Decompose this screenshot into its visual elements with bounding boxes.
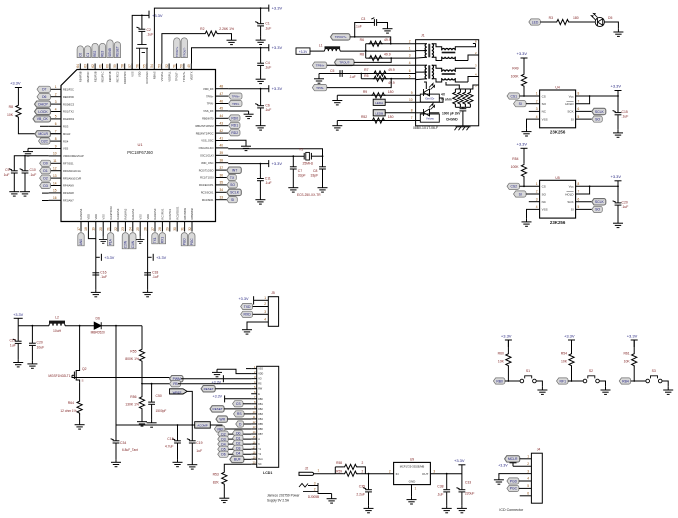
wire pin7 HOLD jog (576, 96, 590, 104)
svg-text:TX1: TX1 (153, 237, 157, 243)
node D3 tag pin14 (40, 182, 51, 188)
svg-text:L2: L2 (55, 316, 59, 320)
svg-text:NC: NC (258, 463, 262, 466)
resistor R2 2.26K 1% (204, 31, 218, 36)
svg-text:7: 7 (578, 99, 580, 103)
node TPIN- tag (312, 84, 327, 90)
power +3.3V right bar (268, 85, 270, 92)
node D4 tag (233, 450, 244, 456)
wire pin4 VSS (527, 209, 540, 218)
ground (173, 459, 183, 467)
svg-text:S2: S2 (589, 369, 593, 373)
wire LCD1 pin 10 (251, 413, 257, 415)
svg-text:SO: SO (230, 183, 235, 187)
ground (256, 76, 266, 84)
svg-text:OSC1/CLKI: OSC1/CLKI (200, 154, 214, 158)
node C2 vtag (92, 43, 98, 57)
svg-text:+3.3V: +3.3V (272, 161, 283, 166)
node D2 tag (218, 431, 229, 437)
power +3.3V side tap (96, 256, 100, 258)
wire (416, 94, 421, 96)
ground ICD pin3 (499, 474, 532, 477)
svg-text:VSS: VSS (130, 71, 134, 76)
svg-text:2.2uF: 2.2uF (356, 492, 365, 496)
node D0 tag pin11 (40, 160, 51, 166)
capacitor C35 2.2uF (368, 474, 370, 490)
svg-text:RA5/AN4: RA5/AN4 (79, 208, 83, 219)
svg-text:.1uF: .1uF (265, 181, 272, 185)
svg-text:C33: C33 (465, 481, 471, 485)
jack switch contacts (299, 483, 332, 494)
node SCLK tag pin34 (227, 189, 242, 195)
resistor R49 100K (521, 73, 526, 87)
wire (327, 79, 391, 88)
svg-text:C11: C11 (265, 177, 271, 181)
svg-text:C10: C10 (30, 168, 36, 172)
svg-text:.1uF: .1uF (30, 173, 37, 177)
svg-text:FB: FB (173, 382, 178, 386)
wire cap branch (617, 186, 619, 202)
svg-text:1uF: 1uF (10, 344, 16, 348)
wire gate row to PWM tag (72, 375, 85, 377)
wire LCD1 pin 3 (251, 378, 257, 380)
wire (314, 473, 335, 475)
svg-text:10K: 10K (7, 113, 14, 117)
node INT tag pin37 (227, 167, 242, 173)
U1 left pins 1-16 (49, 88, 61, 90)
svg-text:16: 16 (53, 196, 57, 200)
svg-text:6: 6 (55, 122, 57, 126)
wire (432, 44, 442, 51)
svg-text:2: 2 (536, 190, 538, 194)
svg-text:RE1/P2C: RE1/P2C (63, 88, 74, 92)
switch S2 pushbutton (583, 376, 599, 383)
svg-text:RG3: RG3 (63, 125, 69, 129)
svg-text:C20: C20 (37, 341, 43, 345)
wire (462, 111, 464, 126)
svg-text:+3.3V: +3.3V (564, 334, 575, 339)
svg-text:RE7/EC2: RE7/EC2 (116, 71, 120, 82)
svg-text:D7: D7 (42, 88, 46, 92)
svg-text:R61: R61 (623, 352, 629, 356)
ground (255, 197, 265, 205)
svg-text:VSS: VSS (63, 147, 68, 151)
svg-text:LCD1: LCD1 (263, 471, 272, 475)
svg-text:SI: SI (571, 208, 574, 212)
svg-text:.1uF: .1uF (622, 115, 629, 119)
capacitor C16 .1uF (92, 273, 99, 275)
node RB0 tag (493, 378, 505, 384)
resistor R52 180 (371, 118, 385, 123)
wire LCD1 pin 4 (251, 383, 257, 385)
svg-text:C34: C34 (120, 441, 126, 445)
wire LCD pin4 row FB (178, 383, 251, 385)
svg-text:.1uF: .1uF (355, 25, 362, 29)
ground VSS pin41 (228, 140, 246, 143)
svg-text:D6: D6 (42, 95, 46, 99)
svg-text:180: 180 (388, 115, 394, 119)
svg-text:10: 10 (53, 152, 57, 156)
microcontroller U1 PIC18F67J60 body (61, 70, 216, 222)
svg-text:4: 4 (264, 318, 266, 322)
svg-text:U4: U4 (555, 86, 559, 90)
wire (416, 43, 427, 45)
LED yellow inside J1 (424, 104, 435, 117)
svg-text:C1: C1 (265, 22, 269, 26)
node PWM tag (170, 376, 184, 382)
wire (228, 433, 251, 435)
svg-text:RD1: RD1 (231, 124, 238, 128)
node ACOMP tag (195, 422, 211, 428)
svg-text:2: 2 (314, 487, 316, 491)
svg-text:33pF: 33pF (298, 174, 306, 178)
svg-text:VDD_RX: VDD_RX (203, 87, 214, 91)
svg-text:RC3/SCK1: RC3/SCK1 (201, 191, 214, 195)
svg-text:12: 12 (53, 167, 57, 171)
svg-text:48: 48 (220, 85, 224, 89)
svg-text:+3.3V: +3.3V (104, 256, 114, 260)
svg-text:RG1/TX2: RG1/TX2 (63, 110, 74, 114)
ground (613, 29, 623, 37)
node D3 tag (218, 436, 229, 442)
sram U4 23K256 body (540, 90, 576, 128)
wire terminator common node (455, 106, 470, 108)
wire (85, 377, 170, 379)
svg-text:U1: U1 (137, 142, 143, 147)
wire (416, 64, 427, 66)
wire ICD pin6 stub (520, 495, 532, 497)
svg-text:TPIN-: TPIN- (316, 86, 324, 90)
ground (91, 289, 101, 297)
node SO tag pin35 (227, 182, 238, 188)
node D7 tag pin1 (37, 86, 51, 92)
wire (432, 65, 442, 72)
power +3.3V side bar LCD pin7 (225, 398, 252, 400)
svg-text:32: 32 (188, 227, 192, 231)
svg-text:WR: WR (219, 417, 225, 421)
svg-text:R49: R49 (512, 67, 518, 71)
svg-text:VDD: VDD (87, 214, 91, 220)
capacitor C8 33pF (319, 167, 326, 169)
svg-text:180: 180 (388, 90, 394, 94)
ground (336, 121, 338, 123)
node BUF tag LCD pin19 (230, 456, 244, 462)
resistor terminators 4X 75 ohm (453, 91, 458, 105)
svg-text:VDD_OSC: VDD_OSC (201, 161, 214, 165)
svg-text:.1uF: .1uF (100, 275, 107, 279)
svg-text:C19: C19 (196, 441, 202, 445)
svg-text:50: 50 (180, 64, 184, 68)
capacitor C9 1uF (9, 169, 18, 173)
svg-text:VO: VO (258, 378, 262, 381)
svg-text:SI: SI (519, 102, 522, 106)
wire row J1 pin5 (361, 78, 415, 80)
svg-text:7: 7 (411, 116, 413, 120)
node FB tag (170, 381, 181, 387)
svg-text:VDD: VDD (258, 373, 263, 376)
svg-text:31: 31 (180, 227, 184, 231)
node D2 tag (233, 440, 244, 446)
svg-text:TPOUT-: TPOUT- (175, 71, 179, 81)
svg-text:SCK: SCK (567, 200, 573, 204)
svg-text:25: 25 (136, 227, 140, 231)
wire (571, 340, 573, 347)
svg-text:3: 3 (536, 197, 538, 201)
svg-text:3: 3 (536, 107, 538, 111)
svg-text:D2: D2 (43, 176, 47, 180)
svg-text:RB0/INT0: RB0/INT0 (202, 117, 214, 121)
svg-text:SI: SI (519, 192, 522, 196)
inductor L1 ferrite (325, 49, 341, 52)
svg-text:1: 1 (415, 487, 417, 491)
power +3.3V MCLR pull-up (15, 87, 22, 89)
svg-text:DB2: DB2 (258, 408, 263, 411)
node RXD vtag pin28 (159, 233, 165, 244)
wire (79, 414, 81, 422)
resistor R60 10K (506, 353, 511, 367)
svg-text:RE3/P3C: RE3/P3C (86, 71, 90, 82)
svg-text:RBIAS: RBIAS (153, 71, 157, 79)
svg-text:RA1/AN1: RA1/AN1 (131, 208, 135, 219)
wire TX secondary to pins (462, 44, 476, 47)
svg-text:GND: GND (409, 480, 417, 484)
node C1D vtag pin24 (130, 233, 136, 249)
svg-text:C1IN: C1IN (131, 240, 135, 248)
svg-text:R8: R8 (9, 105, 13, 109)
svg-text:Vcc: Vcc (569, 94, 575, 98)
node LED5 tag (529, 19, 541, 25)
wire LCD1 pin 8 (251, 403, 257, 405)
svg-text:53: 53 (158, 64, 162, 68)
wire LCD pin1 stub (246, 368, 251, 370)
wire VDDCORE pin10 (14, 156, 48, 171)
svg-text:+3.3V: +3.3V (13, 313, 23, 317)
transformer winding primary (425, 44, 427, 58)
ground (219, 495, 229, 503)
svg-text:D5: D5 (608, 16, 612, 20)
svg-text:C4: C4 (265, 61, 269, 65)
svg-text:PGC: PGC (510, 487, 518, 491)
svg-text:VSS_RX: VSS_RX (203, 109, 214, 113)
svg-text:P1A: P1A (109, 238, 113, 245)
svg-text:D2C: D2C (41, 139, 48, 143)
svg-text:5: 5 (578, 205, 580, 209)
svg-text:6: 6 (578, 107, 580, 111)
wire rail (17, 318, 19, 325)
wire (210, 425, 251, 429)
power +3.3V (615, 180, 622, 182)
wire LCD1 pin 16 (251, 443, 257, 445)
capacitor C15 .1uF (613, 111, 622, 115)
svg-text:3: 3 (264, 310, 266, 314)
node D5 vtag pin31 (181, 233, 187, 246)
svg-text:+3.3V: +3.3V (272, 45, 283, 50)
ground VSSRX pin45 (228, 110, 248, 112)
wire pin2 (526, 103, 540, 105)
svg-text:Yelow: Yelow (426, 117, 435, 121)
node SI tag (576, 208, 592, 210)
node RESET tag LCD pin9 (210, 406, 224, 412)
capacitor C3 .1uF (371, 18, 376, 26)
wire LCD1 pin 17 (251, 448, 257, 450)
svg-text:5: 5 (578, 115, 580, 119)
svg-text:SCLK: SCLK (595, 200, 605, 204)
ground (143, 289, 153, 297)
node SI tag (576, 118, 592, 120)
svg-text:PGD: PGD (183, 238, 187, 246)
svg-text:45: 45 (220, 107, 224, 111)
node SI tag (514, 101, 527, 107)
svg-text:C3: C3 (361, 17, 365, 21)
wire LCD1 pin 18 (251, 453, 257, 455)
svg-text:TPIN-: TPIN- (232, 102, 239, 106)
transformer winding primary (425, 65, 427, 79)
svg-text:SO: SO (595, 208, 600, 212)
svg-text:38: 38 (220, 159, 224, 163)
svg-text:R64: R64 (68, 401, 74, 405)
svg-text:19: 19 (92, 227, 96, 231)
svg-text:R9: R9 (363, 90, 367, 94)
node RD1 tag pin43 (229, 122, 241, 128)
svg-text:BUF: BUF (234, 458, 241, 462)
resistor R7 49.9 (373, 71, 387, 76)
svg-text:RESET: RESET (204, 387, 214, 391)
svg-text:PIC18F67J60: PIC18F67J60 (127, 150, 153, 155)
ground (407, 496, 417, 504)
svg-text:41: 41 (220, 136, 224, 140)
svg-text:RX1: RX1 (161, 237, 165, 243)
wire OSC1 pin39 to crystal (228, 155, 304, 157)
svg-text:MCLR: MCLR (63, 132, 70, 136)
ground (457, 505, 467, 513)
ground (601, 387, 611, 395)
svg-text:LEDA: LEDA (375, 101, 383, 105)
svg-text:VDDTX: VDDTX (190, 71, 194, 80)
resistor R9 180 (371, 93, 385, 98)
svg-text:IN: IN (396, 472, 399, 476)
capacitor C19 1uF (187, 439, 196, 443)
svg-text:R52: R52 (361, 115, 367, 119)
svg-text:R7: R7 (364, 68, 368, 72)
svg-text:Q2: Q2 (82, 367, 87, 371)
svg-text:RB0: RB0 (496, 379, 503, 383)
svg-text:BLA: BLA (258, 458, 263, 461)
svg-text:C15: C15 (622, 110, 628, 114)
wire pin6 stub (40, 125, 49, 127)
svg-text:RE3: RE3 (101, 50, 105, 56)
svg-text:ECS-250-XX-TR: ECS-250-XX-TR (297, 193, 321, 197)
ground (327, 496, 337, 504)
wire (228, 438, 251, 440)
capacitor C17 1uF (17, 326, 19, 341)
svg-text:C8: C8 (313, 169, 317, 173)
svg-text:SO: SO (595, 117, 600, 121)
ground LCD pin2 jog (217, 369, 251, 373)
svg-text:SENB: SENB (108, 48, 112, 57)
svg-text:33: 33 (220, 196, 224, 200)
wire pin1 (254, 299, 269, 301)
svg-text:1: 1 (264, 296, 266, 300)
svg-text:RG2/RX2: RG2/RX2 (63, 117, 75, 121)
svg-text:61: 61 (98, 64, 102, 68)
capacitor C11 .1uF (257, 179, 264, 181)
wire (536, 381, 542, 387)
node D1 tag (233, 435, 244, 441)
svg-text:WREF: WREF (173, 390, 182, 394)
wire row J1 pin6 (319, 73, 416, 75)
resistor R58 2 parallel pair (334, 467, 336, 474)
svg-text:R54: R54 (561, 352, 567, 356)
node SCK tag (576, 201, 592, 203)
svg-text:+3.3V: +3.3V (152, 13, 163, 18)
svg-text:CS: CS (542, 185, 546, 189)
svg-text:R55: R55 (130, 350, 136, 354)
svg-text:DB4: DB4 (258, 418, 263, 421)
wire row J1 pin4 (327, 64, 416, 66)
connector LCD1 body (257, 366, 279, 467)
svg-text:+3.3V: +3.3V (501, 334, 512, 339)
svg-text:3: 3 (527, 469, 529, 473)
wire boost output down (115, 326, 117, 425)
svg-text:RESET: RESET (116, 46, 120, 57)
wire VDD pin26 (147, 232, 149, 290)
power +3.3V bar on pin3 row (222, 375, 224, 382)
node D0 tag (233, 430, 244, 436)
wire row J1 pin3 (366, 57, 416, 59)
svg-text:RB6/KBI2: RB6/KBI2 (190, 208, 194, 220)
svg-text:52: 52 (165, 64, 169, 68)
node DHCP tag pin3 (35, 101, 51, 107)
power +3.3V input (14, 317, 23, 319)
svg-text:RB7/KBI3: RB7/KBI3 (183, 208, 187, 220)
svg-text:VSS: VSS (542, 208, 548, 212)
svg-text:.1uF: .1uF (265, 108, 272, 112)
ground (613, 130, 623, 138)
wire pin8 Vcc to +3.3V (576, 95, 618, 97)
node RXD tag (241, 311, 253, 317)
svg-text:21: 21 (106, 227, 110, 231)
svg-text:49.9: 49.9 (384, 38, 391, 42)
svg-text:+3.3V: +3.3V (611, 174, 622, 179)
svg-text:.1uF: .1uF (349, 75, 356, 79)
svg-text:49: 49 (187, 64, 191, 68)
svg-text:MCLR: MCLR (38, 132, 48, 136)
svg-text:4: 4 (527, 477, 529, 481)
svg-text:2: 2 (409, 39, 411, 43)
svg-text:47: 47 (220, 92, 224, 96)
power +3.3V side tap (148, 256, 152, 258)
svg-text:08B0-1X1T-06-F: 08B0-1X1T-06-F (413, 126, 438, 130)
svg-text:C38: C38 (437, 485, 443, 489)
svg-text:5: 5 (55, 115, 57, 119)
capacitor C20 .1uF (613, 201, 622, 205)
svg-text:.1uF: .1uF (437, 492, 444, 496)
ground (242, 327, 252, 335)
wire pin4 VSS (527, 119, 540, 128)
svg-text:Grn/Or: Grn/Or (425, 97, 434, 101)
svg-text:RD0: RD0 (231, 116, 238, 120)
ground (663, 387, 673, 395)
svg-text:R60: R60 (498, 352, 504, 356)
wire LCD1 pin 15 (251, 438, 257, 440)
wire (571, 340, 573, 353)
svg-text:9: 9 (55, 144, 57, 148)
svg-text:39: 39 (220, 151, 224, 155)
svg-text:2: 2 (362, 461, 364, 465)
wire pin3 (253, 313, 269, 315)
svg-text:RS: RS (258, 383, 262, 386)
power +3.3V pull-up for U4 (521, 57, 528, 59)
